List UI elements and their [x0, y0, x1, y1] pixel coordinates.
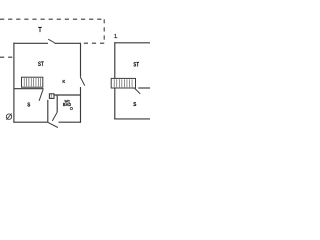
svg-text:1.: 1. — [114, 34, 118, 40]
svg-text:ST: ST — [133, 61, 139, 68]
svg-text:ST: ST — [38, 61, 44, 68]
svg-text:BAD: BAD — [63, 102, 71, 107]
svg-text:K: K — [62, 79, 65, 85]
svg-text:S: S — [133, 102, 137, 108]
